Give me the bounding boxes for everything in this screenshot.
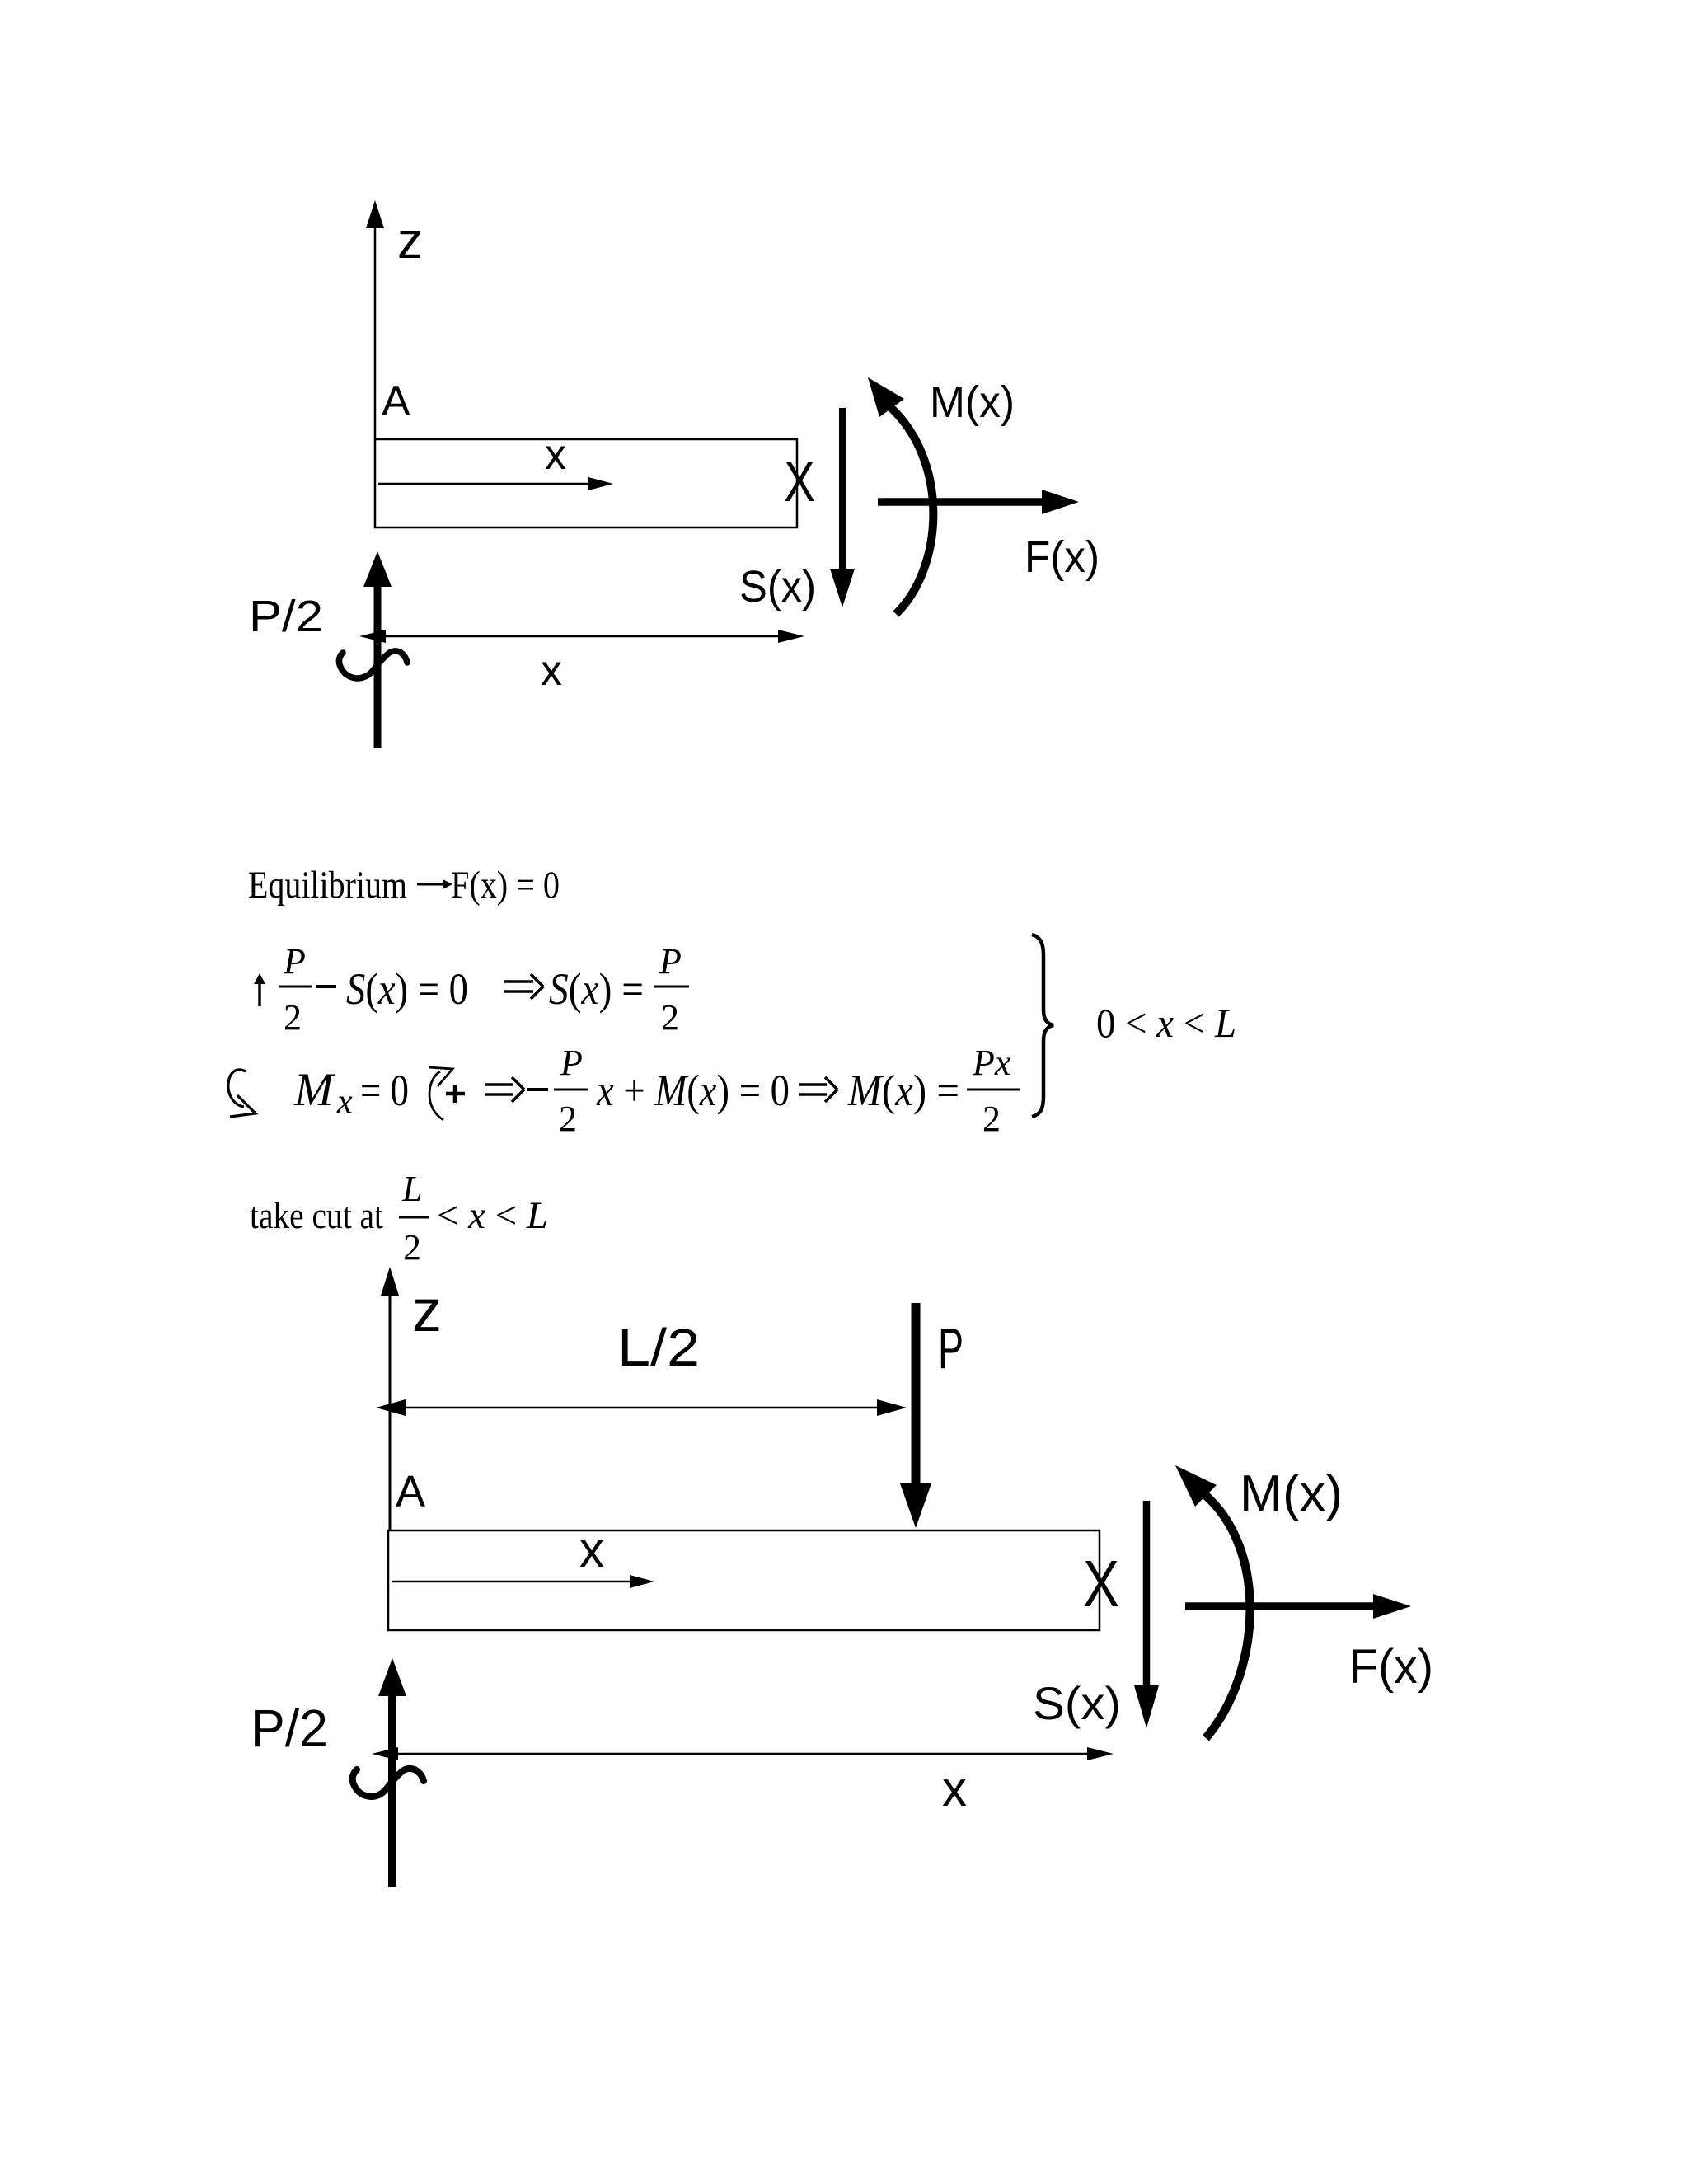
svg-text:z: z: [397, 213, 423, 269]
svg-text:X: X: [1083, 1547, 1119, 1620]
svg-text:2: 2: [661, 997, 679, 1038]
F(x) axial force arrow (diagram 1): [878, 490, 1079, 514]
curly brace: [1032, 935, 1053, 1117]
svg-text:X: X: [784, 449, 815, 513]
svg-text:M: M: [293, 1064, 336, 1116]
svg-text:Px: Px: [972, 1043, 1011, 1083]
svg-text:M(x) =: M(x) =: [847, 1066, 959, 1115]
beam rectangle (diagram 2): [388, 1530, 1100, 1630]
S(x) shear force arrow (diagram 2): [1134, 1501, 1159, 1728]
svg-text:L/2: L/2: [617, 1318, 700, 1377]
equation line 2: up-arrow P/2 - S(x) = 0 => S(x) = P/2: [254, 973, 265, 1006]
svg-text:x: x: [545, 431, 566, 479]
svg-text:P: P: [283, 941, 306, 982]
P/2 reaction arrow (diagram 1): [363, 551, 392, 748]
F(x) axial force arrow (diagram 2): [1185, 1594, 1411, 1619]
svg-text:F(x): F(x): [1025, 532, 1100, 582]
M(x) moment arc arrow (diagram 1): [868, 377, 933, 614]
svg-text:2: 2: [559, 1099, 577, 1139]
z-axis (diagram 1): [366, 200, 384, 439]
svg-text:x: x: [942, 1761, 967, 1816]
svg-text:L: L: [401, 1169, 422, 1209]
svg-text:take cut at: take cut at: [250, 1195, 383, 1236]
L/2 dimension line (diagram 2): [376, 1399, 907, 1416]
svg-text:P/2: P/2: [249, 592, 323, 641]
svg-text:2: 2: [284, 997, 302, 1038]
equation line 3: moment equilibrium: [228, 1070, 256, 1117]
svg-text:S(x) = 0: S(x) = 0: [346, 964, 468, 1014]
svg-text:A: A: [396, 1467, 425, 1516]
z-axis (diagram 2): [381, 1267, 399, 1530]
svg-text:F(x) = 0: F(x) = 0: [451, 864, 560, 907]
svg-text:Equilibrium: Equilibrium: [248, 864, 407, 907]
M(x) moment arc arrow (diagram 2): [1175, 1465, 1250, 1738]
squiggle break mark (diagram 1): [339, 651, 407, 678]
svg-text:z: z: [412, 1278, 442, 1344]
svg-text:M(x): M(x): [930, 377, 1015, 427]
svg-text:A: A: [382, 377, 410, 425]
x dimension line (diagram 2): [372, 1747, 1114, 1760]
P load arrow (diagram 2): [900, 1303, 931, 1528]
svg-text:x: x: [336, 1083, 353, 1121]
svg-text:2: 2: [403, 1227, 421, 1268]
svg-text:F(x): F(x): [1349, 1640, 1433, 1694]
svg-text:M(x): M(x): [1240, 1465, 1343, 1522]
svg-text:S(x): S(x): [1033, 1677, 1121, 1729]
svg-text:x: x: [579, 1522, 604, 1577]
svg-text:P/2: P/2: [251, 1699, 328, 1758]
svg-text:P: P: [659, 941, 682, 982]
x arrow inside beam (diagram 1): [378, 477, 613, 490]
svg-text:0 < x < L: 0 < x < L: [1096, 1000, 1236, 1046]
svg-text:= 0: = 0: [360, 1066, 409, 1115]
svg-text:S(x) =: S(x) =: [549, 964, 644, 1014]
svg-text:2: 2: [982, 1099, 1001, 1139]
squiggle break mark (diagram 2): [353, 1769, 424, 1797]
svg-text:P: P: [560, 1043, 583, 1083]
svg-text:< x < L: < x < L: [437, 1194, 548, 1237]
svg-text:P: P: [938, 1316, 964, 1380]
S(x) shear force arrow (diagram 1): [830, 408, 855, 607]
svg-text:S(x): S(x): [739, 562, 816, 612]
beam rectangle (diagram 1): [375, 439, 797, 527]
svg-text:x + M(x) = 0: x + M(x) = 0: [596, 1066, 790, 1115]
svg-text:x: x: [541, 647, 562, 695]
x arrow inside beam (diagram 2): [392, 1575, 654, 1588]
P/2 reaction arrow (diagram 2): [378, 1658, 406, 1887]
x dimension line (diagram 1): [359, 630, 804, 643]
